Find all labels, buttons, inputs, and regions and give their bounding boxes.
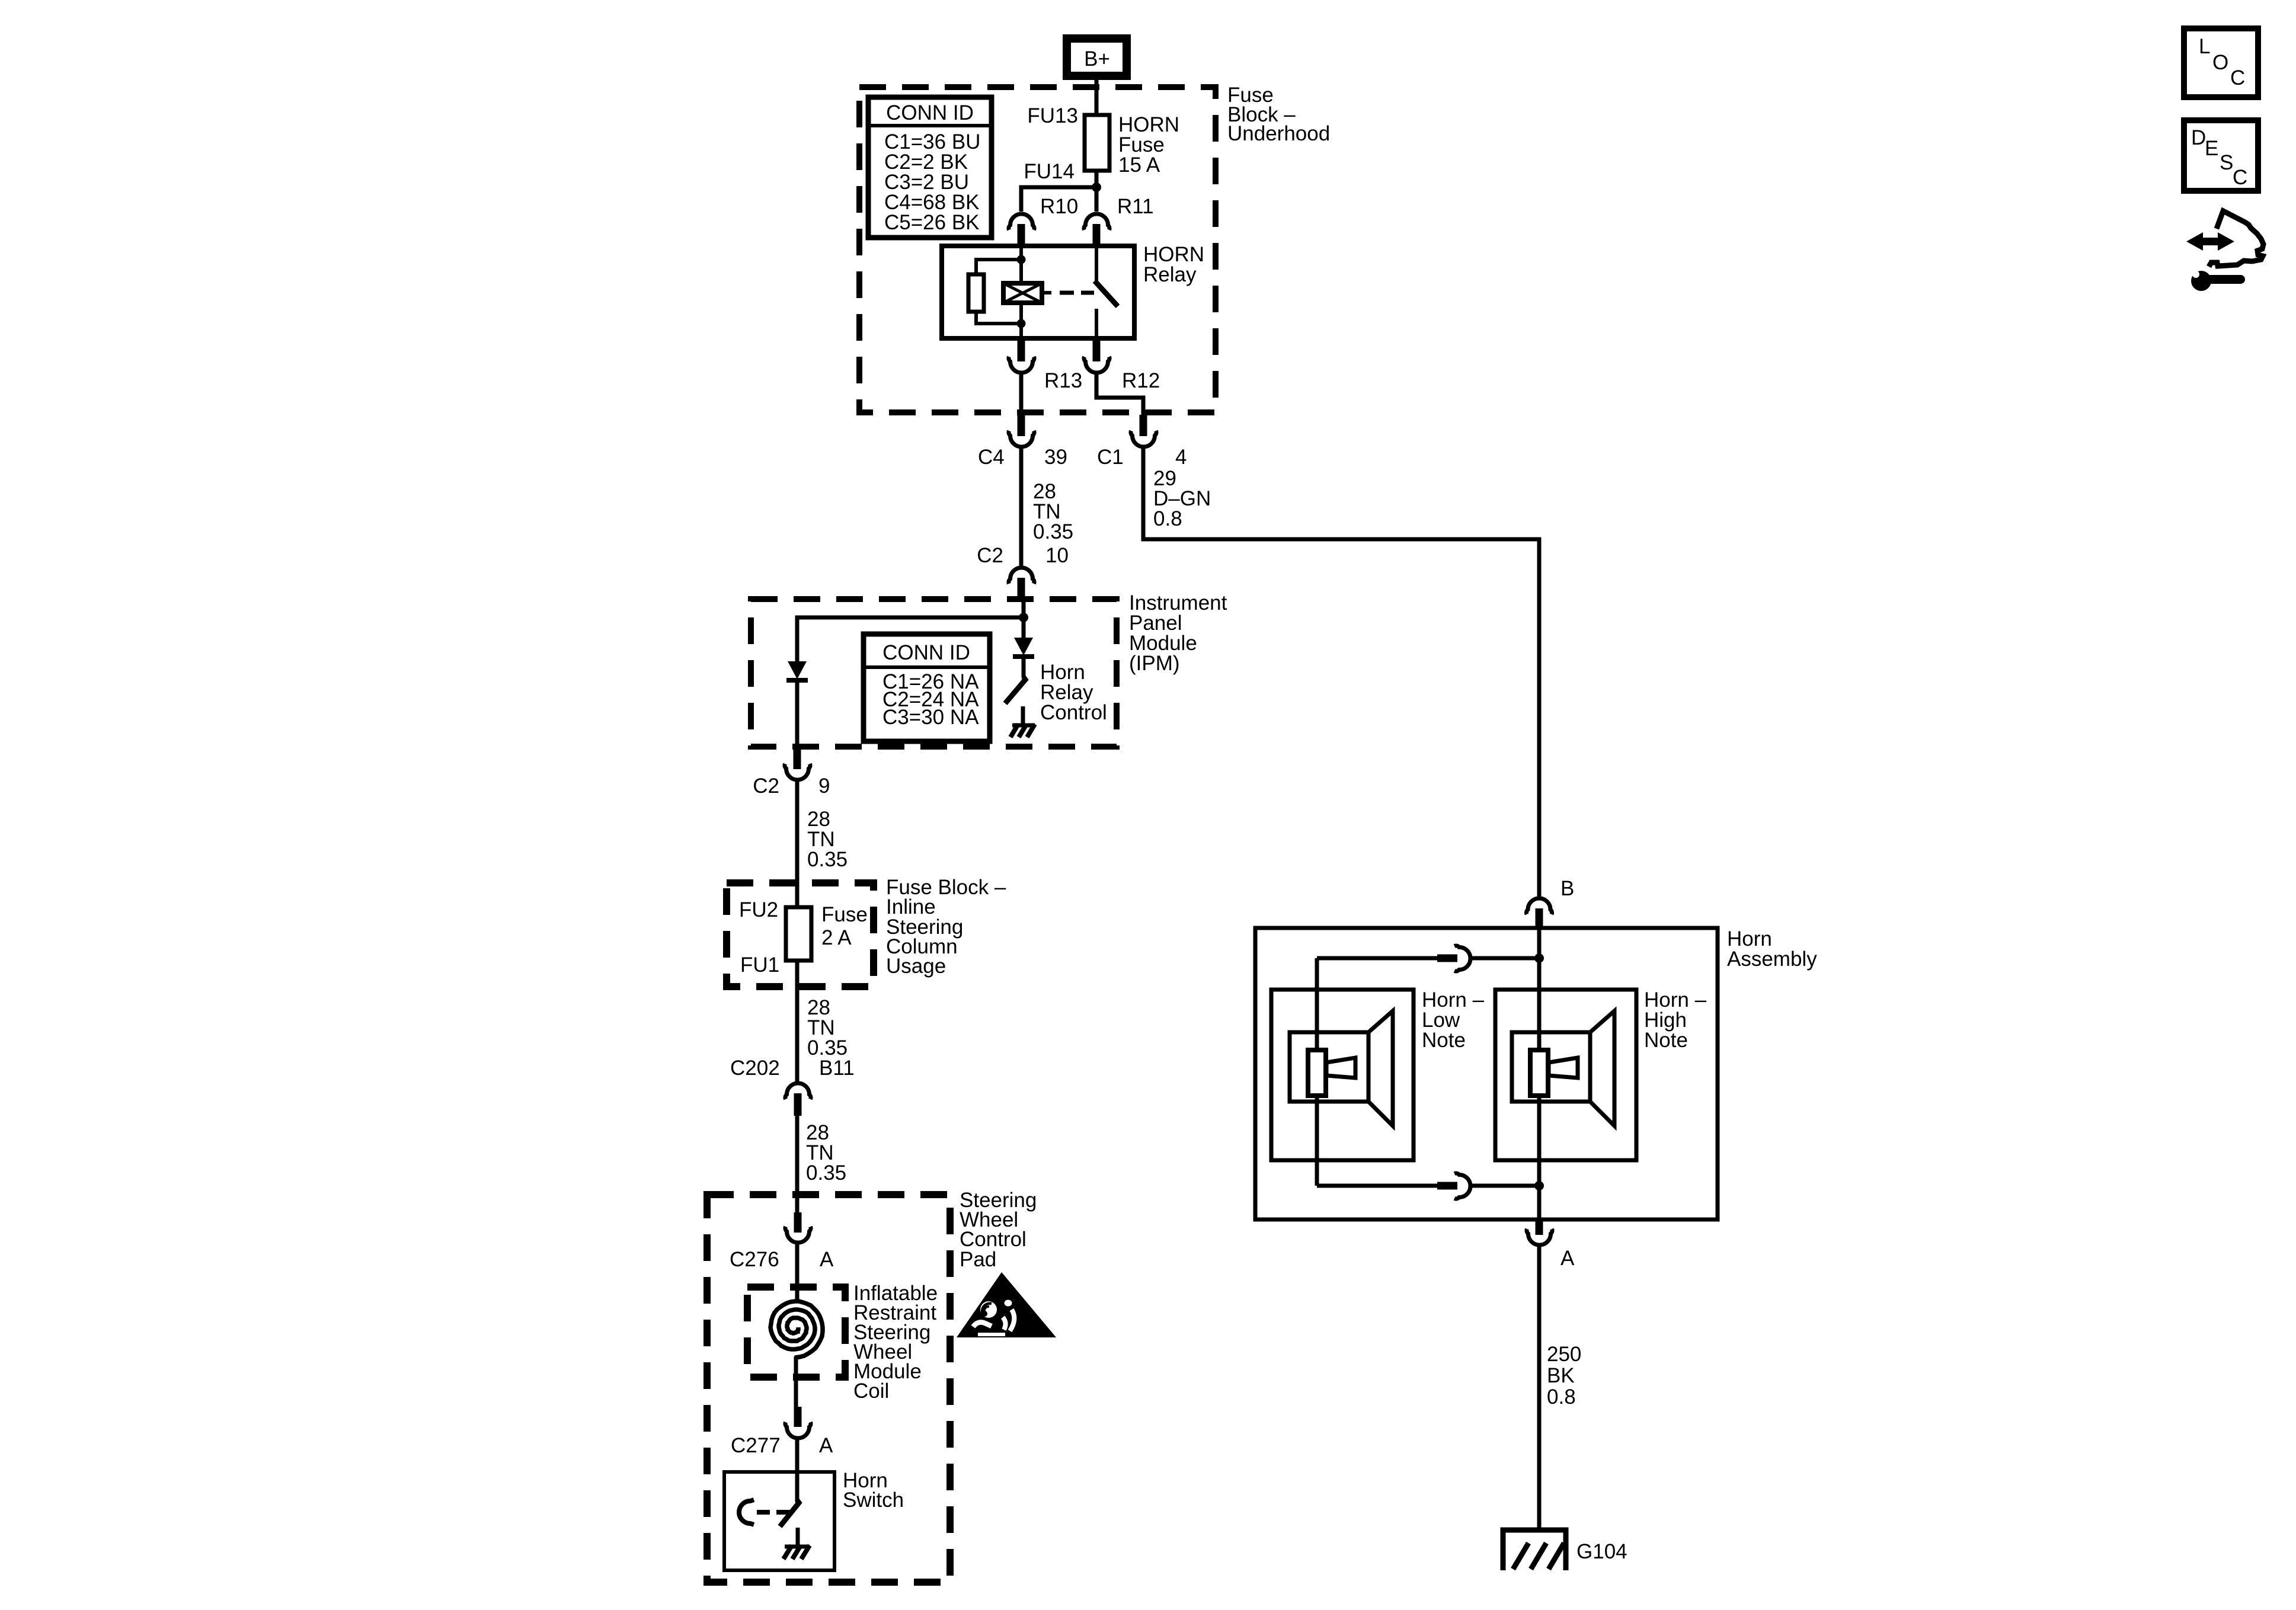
diode D2 (horn relay control) (1013, 617, 1034, 657)
wire into IPM junction (1022, 598, 1026, 621)
svg-text:R11: R11 (1117, 195, 1154, 218)
wire junction down to R11 (1095, 187, 1099, 212)
wire cup to main (top row) (1472, 956, 1539, 961)
svg-text:Pad: Pad (960, 1248, 996, 1271)
Horn Assembly box (1255, 928, 1718, 1219)
IPM junction dot (1019, 613, 1028, 622)
fuse HORN Fuse 15 A (FU13-FU14) (1085, 115, 1109, 171)
svg-text:0.35: 0.35 (806, 1161, 846, 1185)
internal connector cup bottom (1454, 1173, 1470, 1199)
svg-text:C276: C276 (730, 1248, 779, 1271)
label Inflatable Restraint Steering Wheel Module Coil (853, 1282, 938, 1403)
label Horn Switch (843, 1469, 904, 1512)
svg-text:R10: R10 (1040, 195, 1078, 218)
blade into C1 (1140, 415, 1147, 436)
Steering Wheel Control Pad dashed boundary (707, 1195, 950, 1582)
wire R12 jog to C1 (1096, 373, 1143, 416)
wire IPM junction to left branch (797, 617, 1024, 662)
label Steering Wheel Control Pad (960, 1189, 1037, 1271)
Horn Low Note inner box (1290, 1032, 1368, 1102)
label Fuse 2 A (821, 903, 868, 949)
wire cup to main (bottom row) (1472, 1184, 1539, 1188)
relay actuation dashed link (1042, 291, 1094, 295)
wire label 250 BK 0.8 (1547, 1343, 1581, 1409)
svg-text:FU14: FU14 (1024, 160, 1075, 183)
svg-text:(IPM): (IPM) (1129, 652, 1180, 675)
svg-text:2 A: 2 A (821, 926, 852, 949)
svg-text:0.8: 0.8 (1547, 1385, 1576, 1409)
relay switch fixed contact from R11 (1095, 246, 1098, 283)
DESC navigation box (2184, 120, 2258, 191)
relay switch lower contact (1095, 309, 1098, 338)
inline fuse 2 A (786, 907, 811, 961)
relay output blade R13 (1018, 338, 1025, 361)
svg-text:Coil: Coil (853, 1379, 889, 1403)
connector terminal R12 (1084, 357, 1109, 373)
wire A to ground G104 (1537, 1246, 1542, 1529)
svg-text:Underhood: Underhood (1227, 122, 1330, 145)
label HORN Fuse 15 A (1118, 113, 1179, 177)
wire inline fuse to C202 (795, 961, 800, 1082)
connector terminal R11 (1084, 214, 1109, 246)
low note feed wire top (1317, 956, 1438, 961)
wire FU14 branch horizontal (1021, 187, 1096, 212)
relay coil (X-box) (1003, 283, 1042, 303)
svg-text:Note: Note (1644, 1029, 1688, 1052)
connector B cup (1526, 898, 1552, 914)
svg-text:C2: C2 (753, 774, 779, 798)
svg-text:Note: Note (1422, 1029, 1466, 1052)
svg-text:Relay: Relay (1143, 263, 1197, 286)
connector C1 cup (1131, 431, 1156, 447)
svg-text:B: B (1560, 877, 1574, 900)
blade B (1536, 908, 1543, 929)
svg-text:Assembly: Assembly (1727, 948, 1817, 971)
blade C2 pin 10 (1018, 578, 1025, 599)
blade into C4 (1018, 415, 1025, 436)
horn switch ground stub (796, 1528, 800, 1547)
svg-text:E: E (2205, 137, 2218, 160)
svg-text:CONN ID: CONN ID (882, 641, 970, 664)
svg-text:C3=30 NA: C3=30 NA (882, 706, 979, 729)
IPM switch blade (1005, 677, 1025, 703)
blade C276 (794, 1212, 802, 1233)
connector C2 pin 10 cup (1009, 568, 1034, 584)
wire C277 to horn switch (795, 1439, 800, 1474)
blade C202 B11 (794, 1093, 802, 1116)
svg-text:10: 10 (1045, 544, 1069, 567)
connector C277 cup (785, 1422, 811, 1438)
blade top internal connector (1437, 955, 1457, 962)
relay coil branch wire (1019, 246, 1023, 283)
junction dot below fuse (1092, 183, 1101, 192)
label Horn Relay Control (1040, 661, 1107, 724)
ground G104 symbol (1503, 1530, 1566, 1570)
IPM switch lower contact stub (1021, 706, 1025, 725)
svg-text:C277: C277 (731, 1434, 781, 1457)
wire label 28 TN 0.35 (fourth) (806, 1121, 846, 1185)
relay suppression resistor loop wires (976, 260, 1021, 275)
relay switch blade (1095, 281, 1118, 306)
Horn Low Note driver (1308, 1050, 1326, 1096)
HORN Relay box (942, 246, 1134, 338)
horn switch push actuator arc (739, 1500, 754, 1525)
CONN ID table (IPM) (864, 634, 990, 741)
Horn High Note driver (1530, 1050, 1548, 1096)
junction dot bottom (1534, 1181, 1544, 1190)
svg-text:Switch: Switch (843, 1489, 904, 1512)
wire label 29 D-GN 0.8 (1153, 467, 1211, 530)
svg-text:4: 4 (1175, 446, 1187, 469)
battery feed B+ terminal box (1067, 39, 1127, 76)
label Fuse Block - Underhood (1227, 84, 1330, 145)
wire coil to C277 (794, 1356, 798, 1408)
svg-text:C202: C202 (730, 1057, 780, 1080)
label Instrument Panel Module (IPM) (1129, 591, 1227, 675)
svg-text:C1: C1 (1097, 446, 1124, 469)
wire fuse to junction (1095, 171, 1099, 190)
CONN ID table (Fuse Block - Underhood) (868, 97, 992, 238)
horn assembly main wire (1537, 928, 1542, 1219)
horn switch blade (780, 1500, 799, 1526)
svg-text:C: C (2230, 66, 2245, 89)
wire R13 to C4 (1019, 373, 1024, 416)
wire B+ to fuse FU13 (1095, 80, 1099, 116)
connector C4 cup (1009, 431, 1034, 447)
svg-text:A: A (819, 1434, 833, 1457)
Instrument Panel Module dashed boundary (751, 599, 1117, 747)
svg-text:39: 39 (1044, 446, 1067, 469)
svg-text:A: A (820, 1248, 834, 1271)
svg-text:250: 250 (1547, 1343, 1581, 1366)
svg-text:0.8: 0.8 (1153, 507, 1182, 530)
wire coil to relay box bottom (1019, 303, 1023, 338)
label Horn - High Note (1644, 988, 1707, 1052)
IPM internal ground (1011, 724, 1035, 737)
horn switch wire (795, 1472, 800, 1502)
svg-text:FU2: FU2 (739, 898, 778, 921)
svg-text:O: O (2212, 51, 2228, 74)
relay resistor (968, 274, 984, 312)
Inflatable Restraint Steering Wheel Module Coil dashed boundary (747, 1287, 845, 1377)
Fuse Block - Inline dashed boundary (727, 883, 874, 987)
label Fuse Block - Inline Steering Column Usage (886, 876, 1006, 978)
svg-text:Control: Control (1040, 701, 1107, 724)
low note branch vertical wire (1315, 958, 1319, 1186)
direction double arrow (2186, 232, 2234, 251)
svg-text:C5=26 BK: C5=26 BK (884, 211, 980, 234)
connector C202 cup (785, 1083, 811, 1099)
label HORN Relay (1143, 243, 1204, 286)
Horn Low Note trumpet (1326, 1058, 1355, 1078)
svg-text:B11: B11 (819, 1057, 855, 1080)
svg-text:FU1: FU1 (740, 953, 779, 977)
wrench glyph (2180, 261, 2245, 291)
relay output blade R12 (1093, 338, 1101, 361)
wire C202 to steering wheel pad (795, 1116, 800, 1214)
svg-text:A: A (1560, 1247, 1575, 1270)
svg-text:R13: R13 (1044, 369, 1082, 392)
svg-text:R12: R12 (1122, 369, 1160, 392)
blade bottom internal connector (1437, 1182, 1457, 1190)
Horn Low Note outer box (1271, 990, 1414, 1160)
svg-text:9: 9 (818, 774, 830, 798)
Horn High Note cone (1590, 1011, 1614, 1126)
internal connector cup top (1454, 946, 1470, 971)
svg-text:Usage: Usage (886, 955, 946, 978)
svg-text:CONN ID: CONN ID (886, 101, 974, 124)
wire C276 to coil (795, 1243, 800, 1301)
svg-text:D: D (2191, 126, 2206, 149)
junction dot top (high note feed) (1534, 953, 1544, 963)
connector terminal R13 (1009, 357, 1034, 373)
wire label 28 TN 0.35 (third) (807, 996, 848, 1060)
svg-text:0.35: 0.35 (1033, 520, 1073, 543)
Horn High Note inner box (1512, 1032, 1590, 1102)
svg-text:B+: B+ (1084, 47, 1110, 71)
IPM switch wire (1022, 659, 1026, 678)
wire C2 pin 9 to inline fuse (795, 780, 800, 908)
connector C276 cup (785, 1227, 811, 1243)
wire C1 to horn assembly B (1143, 447, 1539, 897)
clockspring coil spiral (770, 1301, 823, 1358)
horn switch internal ground (784, 1545, 810, 1559)
svg-text:S: S (2220, 151, 2233, 174)
diode D1 (left, drive output) (786, 661, 808, 680)
svg-text:C: C (2233, 166, 2247, 189)
Horn High Note trumpet (1549, 1058, 1578, 1078)
wire label 28 TN 0.35 (upper) (1033, 480, 1073, 543)
svg-text:BK: BK (1547, 1364, 1575, 1387)
relay coil junction dot lower (1017, 319, 1026, 328)
svg-text:15 A: 15 A (1118, 153, 1160, 177)
svg-text:G104: G104 (1576, 1540, 1627, 1563)
svg-text:FU13: FU13 (1027, 104, 1078, 127)
connector terminal R10 (1009, 214, 1034, 246)
blade A (1536, 1219, 1543, 1235)
wire label 28 TN 0.35 (second) (807, 808, 848, 871)
svg-text:Fuse: Fuse (821, 903, 868, 926)
connector A cup (1527, 1229, 1552, 1245)
horn switch actuation dashes (757, 1510, 791, 1515)
component outline glyph (2209, 211, 2263, 267)
label Horn - Low Note (1422, 988, 1485, 1052)
airbag caution triangle (957, 1272, 1056, 1337)
Horn Switch box (724, 1472, 834, 1570)
relay coil junction dot upper (1017, 255, 1026, 264)
blade C2 pin 9 (794, 748, 801, 769)
Horn Low Note cone (1368, 1011, 1393, 1126)
LOC navigation box (2184, 28, 2258, 97)
svg-text:C2: C2 (977, 544, 1003, 567)
low note feed wire bottom (1317, 1184, 1438, 1188)
svg-text:L: L (2199, 35, 2210, 58)
wire diode D1 to C2 pin 9 (795, 683, 800, 749)
wire C4 down to C2 pin 10 (1019, 447, 1024, 566)
Horn High Note outer box (1495, 990, 1636, 1160)
svg-text:C4: C4 (978, 446, 1005, 469)
blade C277 (794, 1407, 802, 1427)
connector C2 pin 9 cup (785, 764, 810, 780)
svg-text:0.35: 0.35 (807, 848, 848, 871)
Fuse Block - Underhood dashed boundary (859, 87, 1216, 412)
label Horn Assembly (1727, 927, 1817, 971)
